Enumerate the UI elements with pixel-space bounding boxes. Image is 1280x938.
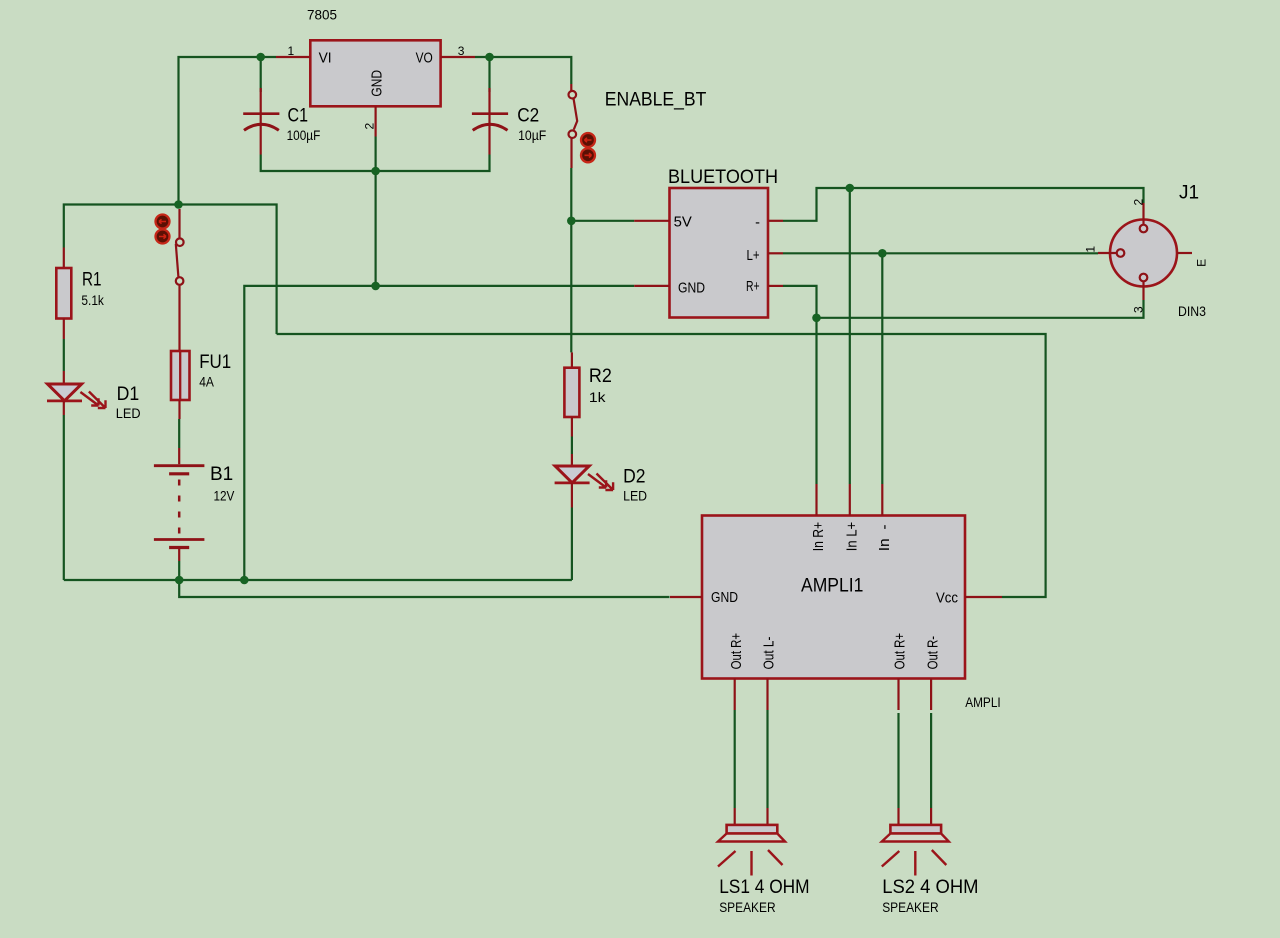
svg-text:SPEAKER: SPEAKER xyxy=(882,900,939,915)
speaker LS1 xyxy=(718,808,785,876)
svg-text:E: E xyxy=(1195,259,1209,267)
wire 5V node down to R2 xyxy=(570,221,572,353)
wire In L+ branch from top run xyxy=(849,188,851,484)
junction node ground bus / BT gnd column xyxy=(240,576,249,585)
diode D1 LED xyxy=(47,371,106,415)
svg-text:L+: L+ xyxy=(747,248,760,264)
wire LS2 negative lead xyxy=(930,713,932,808)
switch SW toggle buttons xyxy=(156,215,170,244)
svg-text:R+: R+ xyxy=(746,279,760,295)
svg-text:R1: R1 xyxy=(82,270,102,291)
wire +12V to Vcc branch vertical xyxy=(179,205,277,335)
junction node VI / C1 xyxy=(256,53,265,62)
svg-text:GND: GND xyxy=(711,590,738,606)
capacitor C1 xyxy=(243,88,279,155)
wire +12V horizontal to R1 branch xyxy=(64,205,179,248)
svg-text:AMPLI1: AMPLI1 xyxy=(801,576,863,597)
svg-text:5V: 5V xyxy=(674,215,693,231)
junction node pin3 row / In R+ xyxy=(812,314,821,323)
wire 7805 GND pin down to ground row xyxy=(375,137,377,286)
switch SW to fuse xyxy=(176,209,184,351)
svg-text:In L+: In L+ xyxy=(844,522,860,551)
svg-text:Out R+: Out R+ xyxy=(893,633,909,670)
junction node L+ run / In - xyxy=(878,249,887,258)
svg-text:1: 1 xyxy=(288,44,295,58)
svg-text:VO: VO xyxy=(416,51,433,67)
svg-text:D2: D2 xyxy=(623,467,645,488)
svg-text:12V: 12V xyxy=(214,489,235,504)
wire J1 pin3 row to In R+ column xyxy=(817,300,1144,318)
wire R2 to D2 link xyxy=(571,437,573,455)
connector J1 DIN3 xyxy=(1098,203,1192,300)
resistor R1 xyxy=(56,248,71,340)
wire ground bus horizontal xyxy=(64,579,572,581)
diode D2 LED xyxy=(555,454,614,508)
wire LS2 positive lead xyxy=(897,713,899,808)
capacitor C2 xyxy=(472,88,508,155)
wire ENABLE_BT to BT 5V node xyxy=(570,168,572,221)
svg-text:5.1k: 5.1k xyxy=(81,293,104,308)
wire BT R+ down to In R+ xyxy=(783,286,817,484)
wire In - branch from L+ run xyxy=(881,253,883,484)
wire BT minus pin to J1 pin2 top run xyxy=(783,188,1144,221)
wire Vcc long run to amplifier xyxy=(277,334,1046,597)
wire C1-GND-C2 bottom row xyxy=(261,155,490,172)
switch ENABLE_BT xyxy=(569,84,578,168)
junction node 7805 GND / cap row xyxy=(371,167,380,176)
svg-text:SPEAKER: SPEAKER xyxy=(719,900,776,915)
fuse FU1 xyxy=(171,351,190,419)
wire 5V node to BT 5V pin xyxy=(571,220,634,222)
svg-text:AMPLI: AMPLI xyxy=(965,695,1001,710)
svg-text:2: 2 xyxy=(1131,199,1145,206)
svg-text:LED: LED xyxy=(623,489,647,504)
wire D1 cathode down to ground bus xyxy=(63,415,65,580)
svg-text:GND: GND xyxy=(370,70,386,97)
svg-text:1: 1 xyxy=(1083,246,1097,253)
svg-text:LS1 4 OHM: LS1 4 OHM xyxy=(719,877,809,898)
svg-text:3: 3 xyxy=(458,44,465,58)
svg-text:4A: 4A xyxy=(199,375,214,390)
wire D2 cathode to ground bus xyxy=(571,508,573,581)
wire ground row BT GND to left column xyxy=(244,286,634,580)
junction node VO / C2 xyxy=(485,53,494,62)
resistor R2 xyxy=(564,352,579,436)
wire battery minus to ground bus xyxy=(178,561,180,580)
wire C2 top lead green xyxy=(488,57,490,92)
junction node top run / In L+ xyxy=(846,184,855,193)
svg-text:7805: 7805 xyxy=(307,8,337,23)
svg-text:GND: GND xyxy=(678,280,705,296)
wire C1 top lead green xyxy=(260,57,262,92)
wire BT L+ to J1 pin1 xyxy=(783,252,1098,254)
regulator U 7805 xyxy=(276,40,475,136)
wire +12V top rail from VI pin to left column xyxy=(179,57,277,205)
svg-text:C2: C2 xyxy=(517,106,539,127)
speaker LS2 xyxy=(882,808,949,876)
svg-text:B1: B1 xyxy=(210,464,233,485)
svg-text:Out R-: Out R- xyxy=(925,636,941,670)
svg-text:Out L-: Out L- xyxy=(762,636,778,669)
svg-text:ENABLE_BT: ENABLE_BT xyxy=(605,90,707,111)
wire LS1 negative lead xyxy=(766,710,768,808)
wire fuse to battery link xyxy=(178,419,180,448)
svg-text:Vcc: Vcc xyxy=(936,591,958,607)
junction node ground row / 7805 GND xyxy=(371,282,380,291)
switch ENABLE_BT toggle buttons xyxy=(581,133,595,162)
junction node ground bus / battery xyxy=(175,576,184,585)
svg-text:C1: C1 xyxy=(288,106,309,127)
svg-text:R2: R2 xyxy=(589,366,612,387)
svg-text:LED: LED xyxy=(116,406,141,421)
svg-text:-: - xyxy=(755,215,760,231)
svg-text:In -: In - xyxy=(877,524,893,551)
svg-text:DIN3: DIN3 xyxy=(1178,304,1206,319)
svg-text:D1: D1 xyxy=(117,384,140,405)
svg-text:Out R+: Out R+ xyxy=(729,633,745,670)
wire LS1 positive lead xyxy=(734,710,736,808)
amplifier AMPLI1 xyxy=(670,484,1002,710)
junction node +12V rail xyxy=(174,200,183,209)
svg-text:10µF: 10µF xyxy=(518,128,546,143)
svg-text:J1: J1 xyxy=(1179,183,1199,204)
svg-text:2: 2 xyxy=(362,123,376,130)
svg-text:VI: VI xyxy=(319,51,332,67)
svg-text:In R+: In R+ xyxy=(811,522,827,551)
svg-text:100µF: 100µF xyxy=(287,128,321,143)
wire R1 to D1 link xyxy=(63,339,65,371)
wire ground bus jog to amplifier GND xyxy=(179,580,669,597)
svg-text:BLUETOOTH: BLUETOOTH xyxy=(668,167,778,188)
module BLUETOOTH xyxy=(634,188,783,318)
svg-text:LS2 4 OHM: LS2 4 OHM xyxy=(882,877,978,898)
svg-text:1k: 1k xyxy=(589,390,606,405)
battery B1 xyxy=(154,448,205,561)
svg-text:3: 3 xyxy=(1131,306,1145,313)
wire VO output to ENABLE_BT switch xyxy=(475,57,571,84)
svg-text:FU1: FU1 xyxy=(199,352,231,373)
junction node 5V / R2 xyxy=(567,217,576,226)
